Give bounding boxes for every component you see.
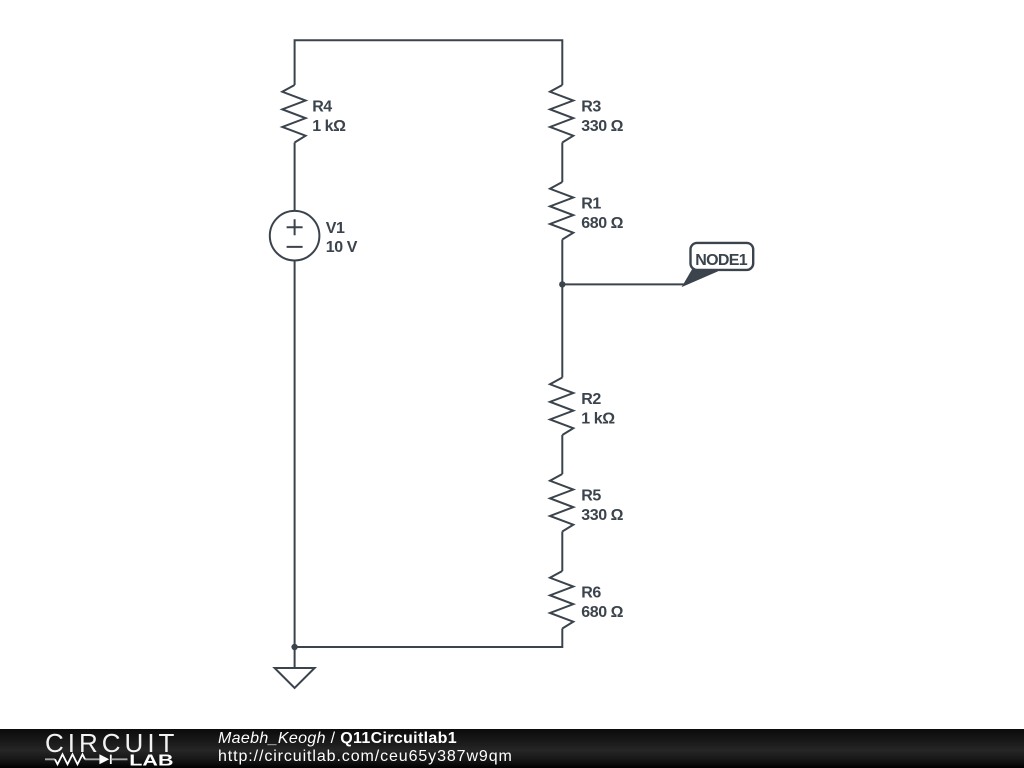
svg-text:R1: R1 bbox=[581, 196, 601, 213]
svg-text:680 Ω: 680 Ω bbox=[581, 604, 623, 621]
svg-text:R3: R3 bbox=[581, 99, 601, 116]
svg-text:R4: R4 bbox=[312, 99, 332, 116]
voltage source V1 bbox=[270, 211, 320, 261]
flag NODE1 tail bbox=[684, 271, 718, 286]
resistor R3 bbox=[550, 85, 573, 143]
svg-text:330 Ω: 330 Ω bbox=[581, 507, 623, 524]
junction dot bottom node bbox=[291, 644, 297, 650]
svg-text:R5: R5 bbox=[581, 488, 601, 505]
svg-text:330 Ω: 330 Ω bbox=[581, 118, 623, 135]
footer bar bbox=[0, 729, 1024, 768]
ground bbox=[275, 647, 315, 688]
svg-text:1 kΩ: 1 kΩ bbox=[312, 118, 346, 135]
wire top run bbox=[295, 40, 563, 85]
flag NODE1 box bbox=[691, 243, 754, 270]
resistor R1 bbox=[550, 182, 573, 240]
svg-text:680 Ω: 680 Ω bbox=[581, 215, 623, 232]
resistor R4 bbox=[282, 85, 305, 143]
junction dot NODE1 bbox=[559, 281, 565, 287]
wire R3 to R1 bbox=[561, 143, 563, 183]
resistor R2 bbox=[550, 378, 573, 435]
wire R1 to R2 bbox=[561, 240, 563, 378]
svg-text:V1: V1 bbox=[326, 220, 345, 237]
resistor R5 bbox=[550, 474, 573, 531]
svg-text:NODE1: NODE1 bbox=[695, 252, 747, 269]
wire R2 to R5 bbox=[561, 435, 563, 474]
resistor R6 bbox=[550, 571, 573, 628]
svg-text:1 kΩ: 1 kΩ bbox=[581, 411, 615, 428]
wire bottom run bbox=[295, 261, 563, 648]
CircuitLab logo bbox=[0, 729, 190, 768]
wire R4 to V1 bbox=[294, 143, 296, 211]
svg-text:R2: R2 bbox=[581, 391, 601, 408]
svg-text:R6: R6 bbox=[581, 585, 601, 602]
svg-text:10 V: 10 V bbox=[326, 239, 358, 256]
wire node to flag bbox=[562, 283, 685, 285]
wire R5 to R6 bbox=[561, 532, 563, 572]
svg-text:LAB: LAB bbox=[129, 753, 173, 768]
